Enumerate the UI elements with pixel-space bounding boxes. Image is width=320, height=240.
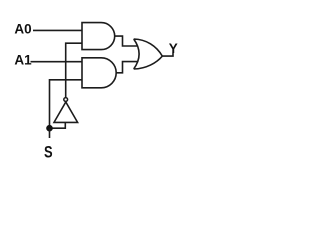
junction dot at S — [46, 125, 53, 132]
wire top AND output to OR input — [115, 36, 138, 46]
svg-text:A0: A0 — [14, 22, 31, 37]
and-gate U1 (top, inputs A0 and inverted S) — [82, 23, 115, 50]
svg-text:A1: A1 — [14, 52, 32, 67]
or-gate U3 — [134, 39, 163, 69]
wire from junction to inverter input — [50, 122, 66, 128]
wire S direct up to bottom AND gate second input — [50, 80, 83, 128]
and-gate U2 (bottom, inputs A1 and S) — [82, 58, 116, 88]
wire bottom AND output to OR input — [116, 62, 138, 73]
wire OR output to Y — [162, 53, 173, 56]
wire A1 to bottom AND gate input — [31, 61, 83, 63]
wire A0 to top AND gate input — [33, 29, 82, 31]
inverter U4 (triangle) — [54, 102, 78, 122]
inverter U4 bubble — [64, 98, 68, 102]
wire S stub below junction — [49, 128, 51, 138]
svg-text:Y: Y — [169, 41, 178, 56]
svg-text:S: S — [44, 143, 53, 162]
wire inverter output up to top AND gate second input — [66, 43, 82, 97]
